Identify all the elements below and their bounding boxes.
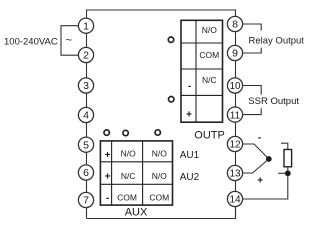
svg-text:4: 4 bbox=[83, 110, 89, 122]
svg-text:N/O: N/O bbox=[121, 149, 137, 159]
svg-text:100-240VAC: 100-240VAC bbox=[4, 36, 58, 47]
screw circle O4 bbox=[123, 130, 128, 135]
svg-text:3: 3 bbox=[83, 80, 89, 92]
svg-text:-: - bbox=[106, 193, 109, 204]
RTD resistor element bbox=[284, 150, 292, 167]
svg-text:COM: COM bbox=[117, 192, 137, 202]
svg-text:7: 7 bbox=[83, 195, 89, 207]
relay output bracket bbox=[243, 24, 262, 53]
terminal 11 bbox=[227, 107, 242, 122]
svg-text:OUTP: OUTP bbox=[194, 129, 225, 141]
terminal 13 bbox=[227, 165, 242, 180]
svg-text:N/C: N/C bbox=[121, 171, 136, 181]
svg-text:COM: COM bbox=[149, 192, 169, 202]
svg-text:8: 8 bbox=[232, 19, 238, 31]
screw circle O5 bbox=[155, 130, 160, 135]
terminal 10 bbox=[227, 78, 242, 93]
RTD bottom lead to 14 bbox=[243, 167, 288, 199]
svg-text:AU2: AU2 bbox=[180, 172, 200, 183]
RTD top lead bbox=[281, 143, 288, 149]
wire L1-top to R8-top loop bbox=[87, 10, 236, 26]
svg-text:N/O: N/O bbox=[152, 171, 168, 181]
terminal 1 bbox=[78, 18, 93, 33]
screw circle O3 bbox=[104, 130, 109, 135]
svg-text:12: 12 bbox=[229, 140, 241, 151]
svg-text:AUX: AUX bbox=[125, 207, 148, 219]
svg-text:14: 14 bbox=[229, 195, 241, 206]
svg-text:10: 10 bbox=[229, 81, 241, 92]
terminal 14 bbox=[227, 191, 242, 206]
svg-text:+: + bbox=[105, 172, 111, 183]
screw circle O2 bbox=[169, 97, 174, 102]
terminal 3 bbox=[78, 78, 93, 93]
wire left terminal bus 1-7 down to bottom bbox=[86, 18, 88, 219]
screw circle O1 bbox=[168, 37, 173, 42]
svg-text:N/O: N/O bbox=[152, 149, 168, 159]
svg-text:N/O: N/O bbox=[202, 25, 218, 35]
thermocouple junction dot bbox=[266, 156, 272, 162]
svg-text:13: 13 bbox=[229, 169, 241, 180]
terminal 4 bbox=[78, 107, 93, 122]
wire right terminal bus 8-14 bbox=[235, 16, 237, 219]
svg-text:-: - bbox=[188, 81, 191, 92]
svg-text:5: 5 bbox=[83, 139, 89, 151]
terminal 12 bbox=[227, 136, 242, 151]
svg-text:AU1: AU1 bbox=[180, 150, 200, 161]
svg-text:COM: COM bbox=[199, 50, 219, 60]
svg-text:~: ~ bbox=[66, 35, 72, 47]
AC supply bracket bbox=[61, 26, 78, 56]
terminal 8 bbox=[227, 16, 242, 31]
svg-text:9: 9 bbox=[232, 48, 238, 60]
SSR output bracket bbox=[243, 86, 262, 115]
thermocouple lead from 13 bbox=[243, 159, 269, 173]
OUTPUT terminal block bbox=[181, 20, 223, 122]
svg-text:6: 6 bbox=[83, 167, 89, 179]
svg-text:SSR Output: SSR Output bbox=[248, 96, 299, 107]
AUX terminal block bbox=[100, 141, 172, 205]
svg-text:+: + bbox=[105, 150, 111, 161]
wire bottom run 7 to 14 bbox=[87, 199, 236, 219]
svg-text:+: + bbox=[186, 110, 192, 121]
terminal 9 bbox=[227, 45, 242, 60]
terminal 2 bbox=[78, 47, 93, 62]
svg-text:Relay Output: Relay Output bbox=[249, 35, 305, 46]
RTD node dot bbox=[285, 170, 291, 176]
terminal 7 bbox=[78, 192, 93, 207]
svg-text:1: 1 bbox=[83, 20, 89, 32]
RTD node stub bbox=[278, 172, 288, 174]
terminal 6 bbox=[78, 165, 93, 180]
svg-text:+: + bbox=[257, 175, 263, 186]
svg-text:N/C: N/C bbox=[202, 75, 217, 85]
thermocouple lead from 12 bbox=[243, 144, 269, 159]
terminal 5 bbox=[78, 137, 93, 152]
svg-text:11: 11 bbox=[230, 110, 241, 121]
svg-text:2: 2 bbox=[83, 50, 89, 62]
svg-text:-: - bbox=[258, 132, 261, 143]
